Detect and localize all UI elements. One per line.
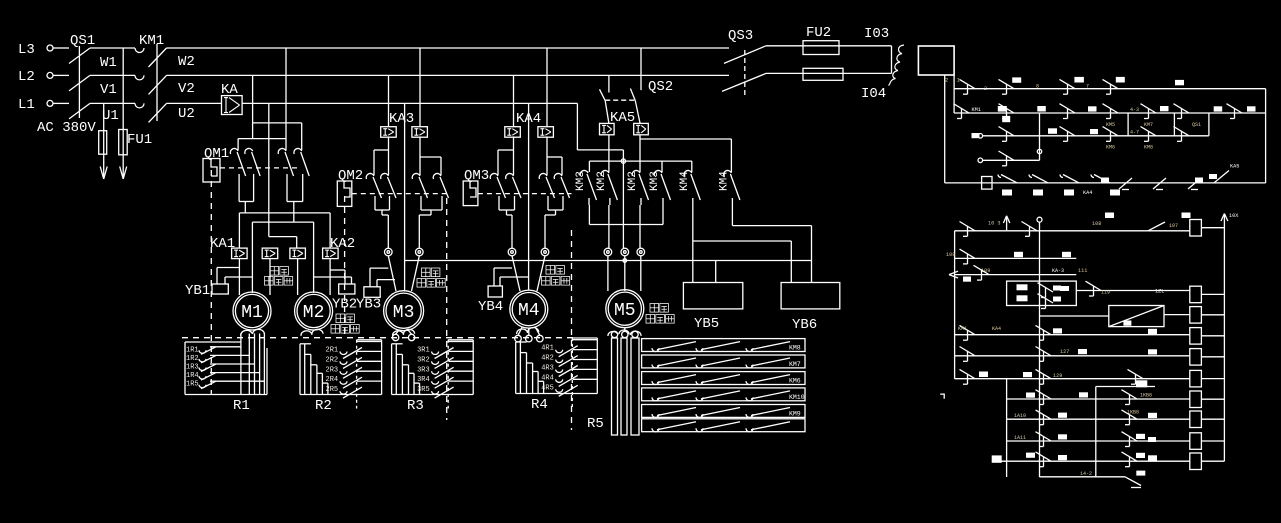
link B-D vertical: [1039, 113, 1041, 160]
lr3 arrow left: [949, 271, 958, 278]
label R2: [315, 398, 332, 414]
cabinet boundary dashed mid1: [446, 198, 448, 420]
breaker QM3 pole 3: [539, 173, 554, 208]
svg-text:1R1: 1R1: [186, 346, 199, 354]
brake YB4: [478, 268, 529, 315]
rectifier feed: [1040, 315, 1109, 317]
svg-text:YB6: YB6: [792, 317, 817, 333]
node L2 terminal: [18, 69, 53, 85]
inter tiny KM6: [1106, 145, 1115, 151]
svg-text:I03: I03: [864, 26, 889, 42]
svg-text:YB5: YB5: [694, 316, 719, 332]
svg-text:FU1: FU1: [127, 132, 152, 148]
brake YB1: [185, 268, 252, 300]
wire QM3 pole3 stub: [546, 157, 548, 175]
bottom rail: [945, 182, 1266, 184]
right rail A: [1265, 89, 1267, 183]
wire L3 to QS1: [53, 47, 69, 49]
svg-text:KA4: KA4: [992, 326, 1001, 332]
wire KA5a down: [608, 135, 610, 172]
rung A label 2: [1074, 77, 1084, 83]
control source box: [918, 46, 960, 84]
rung B label KM1: [972, 107, 981, 113]
lr10 text KA11: [1014, 435, 1026, 441]
svg-text:L3: L3: [18, 42, 35, 58]
lr2 label: [1014, 252, 1023, 257]
lr11 label d: [1148, 455, 1157, 460]
svg-text:R2: R2: [315, 398, 332, 414]
lr9 text KA10: [1014, 413, 1026, 419]
cabinet boundary dashed mid2: [571, 230, 573, 430]
resistor bank R1: [185, 329, 267, 394]
svg-text:QS2: QS2: [648, 79, 673, 95]
lr9 label: [1058, 413, 1067, 418]
svg-text:2: 2: [945, 77, 948, 84]
svg-text:R1: R1: [233, 398, 250, 414]
lower rung 11: [1001, 460, 1190, 462]
svg-text:2R4: 2R4: [326, 376, 339, 384]
wire V1: [90, 75, 135, 98]
wire KA5b down: [639, 135, 641, 172]
svg-text:FU2: FU2: [806, 25, 831, 41]
left rail lower: [954, 231, 956, 379]
lr2 label2: [1062, 252, 1071, 257]
relay coil 5: [1190, 349, 1202, 366]
motor M4 terminal 2: [541, 248, 549, 256]
rung C: [983, 113, 1209, 136]
lr8 blade1: [1036, 390, 1052, 405]
svg-text:1A10: 1A10: [1014, 413, 1026, 419]
coil stub 10: [1201, 460, 1224, 462]
lr7 label KM4: [979, 372, 988, 378]
motor M4 bottom terminal c: [536, 328, 544, 342]
rung B label 2: [1037, 106, 1046, 112]
sub box blade2: [1038, 294, 1054, 309]
label M1 cart motor CJK: [265, 267, 293, 286]
inter tiny KM7: [1144, 122, 1153, 128]
svg-text:1ZL: 1ZL: [1155, 289, 1164, 295]
current relay KA: [221, 82, 242, 115]
frame vline 2: [1173, 113, 1175, 136]
contactor contact KM3 #4: [649, 170, 671, 205]
label R5: [587, 416, 604, 432]
lr12 blade: [1125, 477, 1141, 488]
breaker QM3 pole 2: [506, 173, 521, 208]
motor M4: [510, 290, 548, 328]
relay coil 8: [1190, 411, 1202, 428]
bus W2: [167, 48, 730, 70]
fuse FU1b: [119, 130, 153, 155]
svg-text:4R1: 4R1: [541, 345, 554, 353]
rung E contact 3: [1060, 175, 1079, 183]
wire KA3b to QM2: [420, 136, 441, 175]
label AC 380V: [37, 120, 96, 136]
svg-text:108: 108: [946, 252, 955, 258]
wire M3 mid drop: [404, 103, 406, 290]
svg-text:KM4: KM4: [718, 171, 730, 191]
sub box label1: [1017, 284, 1028, 290]
lr10 label b: [1136, 434, 1145, 439]
branch hline: [1096, 381, 1155, 388]
svg-text:W2: W2: [178, 54, 195, 70]
wire mid rail: [589, 161, 691, 172]
current relay KA3: [381, 111, 428, 137]
svg-text:8: 8: [1036, 84, 1039, 90]
lr3 label: [963, 277, 971, 282]
lr9 label b: [1148, 413, 1157, 418]
rung C contact 1: [999, 127, 1015, 142]
rung E label 4: [1110, 190, 1120, 196]
rung E coil: [982, 177, 992, 190]
wire tap to fuse FU1a: [103, 103, 105, 130]
svg-text:KM6: KM6: [789, 378, 801, 385]
rung E label 5: [1101, 178, 1109, 183]
rung D start node: [978, 158, 983, 163]
rung C tiny 47: [1130, 130, 1139, 136]
svg-text:7: 7: [1086, 84, 1089, 90]
lr7 blade1: [960, 369, 976, 384]
wire W1: [90, 48, 135, 71]
lower rung 6: [955, 355, 1190, 357]
wire KM4b output: [731, 205, 733, 226]
lr10 label c: [1148, 437, 1156, 442]
lr6 text 127: [1060, 349, 1069, 355]
motor M1: [233, 292, 271, 330]
svg-text:1R5: 1R5: [186, 381, 199, 389]
relay coil 9: [1190, 433, 1202, 450]
motor M4 terminal 1: [508, 248, 516, 256]
svg-text:R4: R4: [531, 397, 548, 413]
wire FU2a out: [839, 26, 892, 46]
rectifier 1ZL: [1109, 306, 1164, 327]
rung D contact: [999, 151, 1015, 166]
right rail lower: [1223, 214, 1225, 461]
lr7 text 129: [1053, 373, 1062, 379]
motor M5 terminal 2: [621, 248, 629, 256]
rung C label 1: [1048, 128, 1057, 134]
svg-text:1R2: 1R2: [186, 355, 199, 363]
breaker QM1 pole 1: [230, 148, 245, 196]
lower rung 7: [955, 378, 1190, 380]
relay coil 1: [1190, 220, 1202, 237]
svg-text:127: 127: [1060, 349, 1069, 355]
rung A tiny b: [1086, 84, 1089, 90]
contactor contact KM4 #5: [679, 170, 701, 205]
wire KA3a to QM2: [374, 136, 389, 175]
lr3 blade: [974, 265, 990, 280]
coil stub 9: [1201, 440, 1224, 442]
rung A tiny a: [1036, 84, 1039, 90]
lower rung 9: [1007, 418, 1190, 420]
current relay KA2: [323, 236, 356, 259]
rung E end blade: [1209, 171, 1229, 183]
coil stub 4: [1201, 335, 1224, 337]
wire KA4a to QM3: [498, 136, 514, 175]
lr6 label2: [1148, 349, 1157, 354]
lr10 blade2: [1122, 432, 1138, 447]
relay coil 4: [1190, 328, 1202, 345]
cabinet boundary dashed left: [210, 170, 212, 395]
corner mark: [940, 394, 944, 399]
lr8 label a: [1026, 393, 1035, 398]
rung C contact 4: [1141, 127, 1157, 142]
rung B label 3: [1088, 106, 1097, 111]
breaker QM2: [337, 168, 446, 206]
breaker QM2 pole 2: [381, 173, 396, 208]
brake YB3: [356, 268, 395, 312]
cabinet boundary dashed top: [182, 337, 575, 339]
lower rung 2: [955, 257, 1077, 259]
long common wire: [405, 260, 812, 262]
lr11 box: [992, 455, 1002, 462]
inter label B1: [1002, 116, 1010, 122]
lr11 label c: [1136, 453, 1145, 458]
rail stub: [953, 75, 955, 113]
svg-text:QM1: QM1: [204, 146, 229, 162]
svg-text:KM1: KM1: [958, 326, 967, 332]
svg-text:129: 129: [1053, 373, 1062, 379]
fuse FU1a: [99, 131, 107, 155]
current relay KA5: [600, 110, 649, 135]
svg-text:2R5: 2R5: [326, 386, 339, 394]
node L3 terminal: [18, 42, 53, 58]
fuse FU2a: [803, 25, 839, 55]
lr8 label b: [1079, 392, 1088, 397]
lr3 text 109: [981, 268, 990, 274]
rung C contact 3: [1103, 127, 1119, 142]
svg-text:I04: I04: [861, 86, 886, 102]
svg-text:KM2: KM2: [627, 171, 639, 191]
sub box: [1007, 281, 1077, 305]
svg-text:10X: 10X: [1229, 213, 1239, 219]
lr7 blade3: [1128, 369, 1144, 384]
rung E slash 1: [1119, 178, 1132, 190]
svg-text:3R5: 3R5: [417, 386, 430, 394]
wire KA1-KA2 feed rail: [239, 213, 330, 248]
resistor bank R4: [516, 328, 598, 408]
lr4 text 1ZL: [1155, 289, 1164, 295]
resistor bank R3: [392, 329, 474, 408]
relay coil 6: [1190, 370, 1202, 387]
current relay KA1: [210, 236, 247, 259]
wire direct feed rail: [252, 222, 313, 293]
wire KA1c to M2: [297, 259, 299, 295]
svg-text:KM1: KM1: [139, 33, 164, 49]
wire M3 feeds: [388, 256, 419, 291]
rung C contact 5: [1174, 127, 1190, 142]
lr4 blade: [1086, 281, 1102, 296]
wire U1: [90, 103, 135, 124]
rung E contact 2: [1029, 175, 1048, 183]
coil stub 7: [1201, 398, 1224, 400]
lr8 blade2: [1122, 390, 1138, 405]
breaker QM3 pole 1: [490, 173, 505, 208]
lr10 label: [1058, 434, 1067, 439]
cabinet boundary dashed mid0: [344, 196, 346, 338]
wire W2 drop KA3: [419, 48, 421, 127]
svg-text:L2: L2: [18, 69, 35, 85]
motor M3 bottom terminal b: [408, 330, 415, 341]
rung B contact 4: [1141, 104, 1157, 119]
transformer primary link: [891, 46, 893, 74]
transformer coil: [889, 45, 905, 86]
bus U2 right: [242, 102, 577, 104]
rung A contact 3: [1103, 79, 1119, 94]
svg-text:4R4: 4R4: [541, 374, 554, 382]
svg-text:1KB8: 1KB8: [1140, 393, 1152, 399]
node on link: [1037, 149, 1041, 153]
lr1 blade3: [1148, 222, 1178, 231]
lr5 text KM1: [958, 326, 967, 332]
arrow down FU1a: [100, 154, 107, 179]
current relay KA1c: [290, 248, 306, 259]
svg-text:U2: U2: [178, 106, 195, 122]
svg-text:KA3: KA3: [389, 111, 414, 127]
switch QS2: [600, 48, 674, 123]
lr1 blade: [960, 222, 976, 237]
relay coil 10: [1190, 453, 1202, 470]
wire QM1 pole4 feed: [301, 123, 303, 150]
wire QM3 pair1 join: [499, 208, 515, 248]
svg-text:M5: M5: [614, 301, 636, 321]
contactor contact KM4 #6: [718, 170, 740, 205]
brake YB2: [314, 270, 358, 313]
lr9 text KM8: [1127, 410, 1139, 416]
wire QM1 feed cross 1: [253, 122, 302, 124]
sub box blade1: [1038, 283, 1054, 298]
lr1 blade2: [1022, 222, 1038, 237]
svg-text:R5: R5: [587, 416, 604, 432]
rung B contact 6: [1227, 104, 1243, 119]
svg-text:YB1: YB1: [185, 283, 210, 299]
rung B contact 1: [999, 104, 1015, 119]
rung A tiny 2: [984, 86, 987, 92]
wire QS3 to FU2 bottom: [766, 72, 803, 74]
wire KA1 to M1: [238, 259, 240, 295]
contactor KM1 main contacts: [135, 33, 167, 122]
svg-text:KA4: KA4: [1083, 190, 1092, 196]
lr4 label: [1060, 286, 1069, 291]
wire KA2 to M2: [329, 259, 331, 295]
svg-text:KM8: KM8: [1144, 145, 1153, 151]
svg-text:M2: M2: [303, 303, 325, 323]
right rail arrow: [1221, 213, 1239, 221]
svg-text:M3: M3: [393, 303, 415, 323]
wire KA5 to KM4 rail: [640, 139, 731, 172]
svg-text:V1: V1: [100, 82, 117, 98]
wire L1 to QS1: [53, 102, 69, 104]
svg-text:14-2: 14-2: [1080, 471, 1092, 477]
svg-text:4R2: 4R2: [541, 355, 554, 363]
left mid rail: [1006, 379, 1008, 477]
lr9 blade1: [1036, 410, 1052, 425]
frame vline 1: [1127, 113, 1129, 136]
lower rung 10: [1007, 440, 1190, 442]
svg-text:108: 108: [1092, 221, 1101, 227]
motor M3 terminal 2: [416, 248, 424, 256]
svg-text:L1: L1: [18, 97, 35, 113]
svg-text:KM8: KM8: [789, 345, 801, 352]
sub box label4: [1053, 297, 1061, 302]
rung B contact 2: [1060, 104, 1076, 119]
inter tiny KM5: [1106, 122, 1115, 128]
lr5 blade1: [960, 325, 976, 340]
motor M5 terminal 1: [604, 248, 612, 256]
rung B: [954, 112, 1266, 114]
svg-text:2R3: 2R3: [326, 366, 339, 374]
svg-text:119: 119: [1101, 290, 1110, 296]
rung E text KA5: [1230, 164, 1239, 170]
node M5 mid junction: [621, 159, 625, 163]
mid rail 2: [1095, 387, 1097, 477]
svg-text:4R5: 4R5: [541, 384, 554, 392]
switch QS3: [722, 28, 766, 95]
breaker QM1 pole 2: [245, 148, 260, 196]
rung E text KA4: [1083, 190, 1092, 196]
coil stub 5: [1201, 356, 1224, 358]
brake YB6: [781, 283, 840, 334]
wire QM1 pair1 join: [239, 196, 254, 213]
svg-text:2R1: 2R1: [326, 347, 339, 355]
lr11 label b: [1058, 455, 1067, 460]
breaker QM2 pole 1: [366, 173, 381, 208]
rung B contact 0: [954, 104, 970, 119]
lr12 label: [1136, 471, 1145, 476]
wire YB5 right feed: [715, 261, 717, 283]
lower rung 4: [1076, 290, 1190, 292]
lr5 blade2: [1036, 325, 1052, 340]
coil stub 3: [1201, 314, 1224, 316]
rung A label 1: [1012, 77, 1021, 82]
rung E slash 2: [1153, 178, 1166, 190]
label R3: [407, 398, 424, 414]
label M5 main hook motor CJK: [646, 304, 674, 324]
rung B label 4: [1160, 106, 1169, 111]
svg-text:4-3: 4-3: [1130, 107, 1139, 113]
rung E label 6: [1195, 178, 1203, 183]
rung E label 2: [1033, 190, 1043, 196]
lr6 blade2: [1036, 347, 1052, 362]
wire FU2b out: [843, 73, 892, 102]
wire KM3 pair join: [589, 205, 663, 225]
rung B label 5: [1214, 106, 1223, 111]
wire KM2b to M5 t3: [639, 205, 641, 248]
rung B label 6: [1247, 106, 1256, 111]
svg-text:KM6: KM6: [1106, 145, 1115, 151]
svg-text:KM7: KM7: [789, 361, 801, 368]
wire QM3 pair2 join: [545, 208, 563, 248]
lr1 label box: [1182, 213, 1191, 219]
wire W2 drop KA4: [546, 48, 548, 127]
contactor contact KM2 #2: [596, 170, 618, 205]
rung E contact 4: [1091, 175, 1110, 183]
relay coil 3: [1190, 307, 1202, 324]
svg-text:V2: V2: [178, 81, 195, 97]
rung C start node: [978, 134, 983, 139]
lower rung 5: [955, 334, 1190, 336]
breaker QM1: [203, 146, 298, 182]
breaker QM1 pole 4: [294, 148, 309, 196]
wire U2 to M5 mid: [577, 103, 623, 248]
resistor bank R5: [608, 328, 805, 435]
rung A: [954, 88, 1266, 90]
lr5 label: [1053, 328, 1062, 333]
svg-text:4-7: 4-7: [1130, 130, 1139, 136]
svg-text:3R2: 3R2: [417, 356, 430, 364]
wire QM2 pole3 stub: [419, 157, 421, 175]
rung A contact 2: [1060, 79, 1076, 94]
svg-text:KA-3: KA-3: [1052, 268, 1064, 274]
